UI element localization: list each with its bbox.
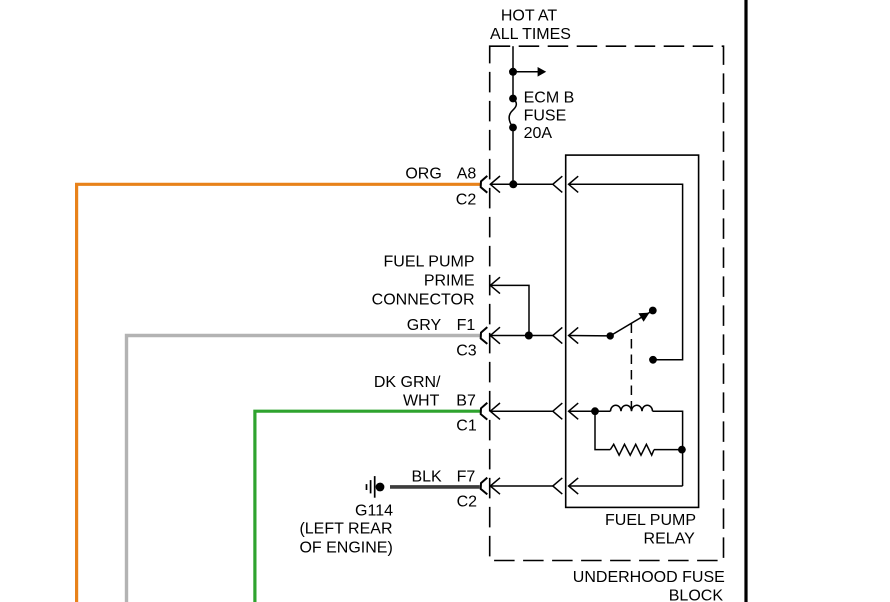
wire resistor branch left [595,411,610,449]
svg-text:FUSE: FUSE [524,108,567,125]
ground G114 [366,484,368,490]
svg-text:RELAY: RELAY [644,531,696,548]
switch blade [610,311,653,336]
svg-text:PRIME: PRIME [424,273,475,290]
relay box FUEL PUMP RELAY [566,155,699,507]
wire coil lead left [569,410,611,412]
connector arrow A8 [490,176,500,193]
wire relay armature dashed link [630,324,632,409]
connector arrow relay pin 86 [569,478,579,494]
svg-text:DK GRN/: DK GRN/ [374,374,441,391]
node coil left junction [591,407,599,415]
svg-text:G114: G114 [355,502,393,519]
wire GRY circuit [127,336,481,602]
page border line [744,0,747,602]
wire coil lead right [653,411,683,486]
resistor [610,444,654,455]
node A8 junction [509,180,517,188]
node tap junction [509,68,517,76]
svg-text:UNDERHOOD FUSE: UNDERHOOD FUSE [573,569,725,586]
svg-text:(LEFT REAR: (LEFT REAR [299,521,392,538]
svg-text:GRY: GRY [407,317,442,334]
connector arrow relay pin 85 [569,403,579,419]
wire prime connector to F1 row [490,285,529,335]
wire F7 row [490,485,553,487]
connector arrow F7 [490,478,500,494]
svg-text:F7: F7 [457,469,476,486]
connector arrow relay pin 87 [569,327,579,343]
wire tap to other circuits [513,71,539,73]
node relay fixed contact [649,356,657,364]
underhood fuse block dashed box [490,46,724,560]
wire F7 row internal [569,485,683,487]
wire BLK circuit [390,485,480,489]
node resistor right junction [678,446,686,454]
wire A8 row [490,183,553,185]
svg-text:WHT: WHT [403,392,440,409]
wire B+ feed vertical [512,46,514,98]
node switch common [607,332,614,339]
connector bracket A8 [481,176,488,193]
svg-text:F1: F1 [457,317,476,334]
svg-text:C2: C2 [456,191,477,208]
svg-text:ECM B: ECM B [524,89,575,106]
connector chevron B7 [553,403,563,419]
svg-text:C2: C2 [457,493,478,510]
connector bracket B7 [481,403,488,420]
fuse ECM B 20A [509,95,517,103]
connector arrow relay pin 30 [569,176,579,192]
connector chevron F1 [553,327,563,343]
svg-text:C3: C3 [456,343,477,360]
relay coil [611,405,653,411]
connector chevron F7 [553,478,563,494]
svg-text:BLOCK: BLOCK [669,588,724,602]
connector chevron A8 [553,176,563,192]
node relay upper contact [649,307,657,315]
connector arrow F1 [490,327,500,344]
wire DK GRN/WHT circuit [255,411,480,602]
wire relay pin 30 internal [569,184,683,359]
wire resistor to right bus [654,449,682,451]
svg-text:OF ENGINE): OF ENGINE) [299,540,392,557]
connector bracket F7 [481,478,488,495]
svg-text:BLK: BLK [411,469,442,486]
svg-text:CONNECTOR: CONNECTOR [372,292,475,309]
wire ORG circuit [77,184,480,602]
svg-text:HOT AT: HOT AT [501,8,558,25]
wire relay switch common [569,335,611,337]
svg-text:C1: C1 [456,418,477,435]
wire F1 row [490,335,553,337]
svg-text:A8: A8 [457,166,477,183]
svg-text:FUEL PUMP: FUEL PUMP [605,512,696,529]
connector arrow B7 [490,403,500,419]
wire fuse to A8 row [512,128,514,185]
connector arrow fuel pump prime [490,277,500,293]
node F1 junction [525,332,533,340]
svg-text:FUEL PUMP: FUEL PUMP [384,254,475,271]
svg-text:ORG: ORG [405,166,441,183]
svg-text:20A: 20A [524,125,553,142]
svg-text:B7: B7 [456,392,476,409]
wire B7 row [490,410,553,412]
connector bracket F1 [481,327,488,344]
svg-text:ALL TIMES: ALL TIMES [490,26,571,43]
